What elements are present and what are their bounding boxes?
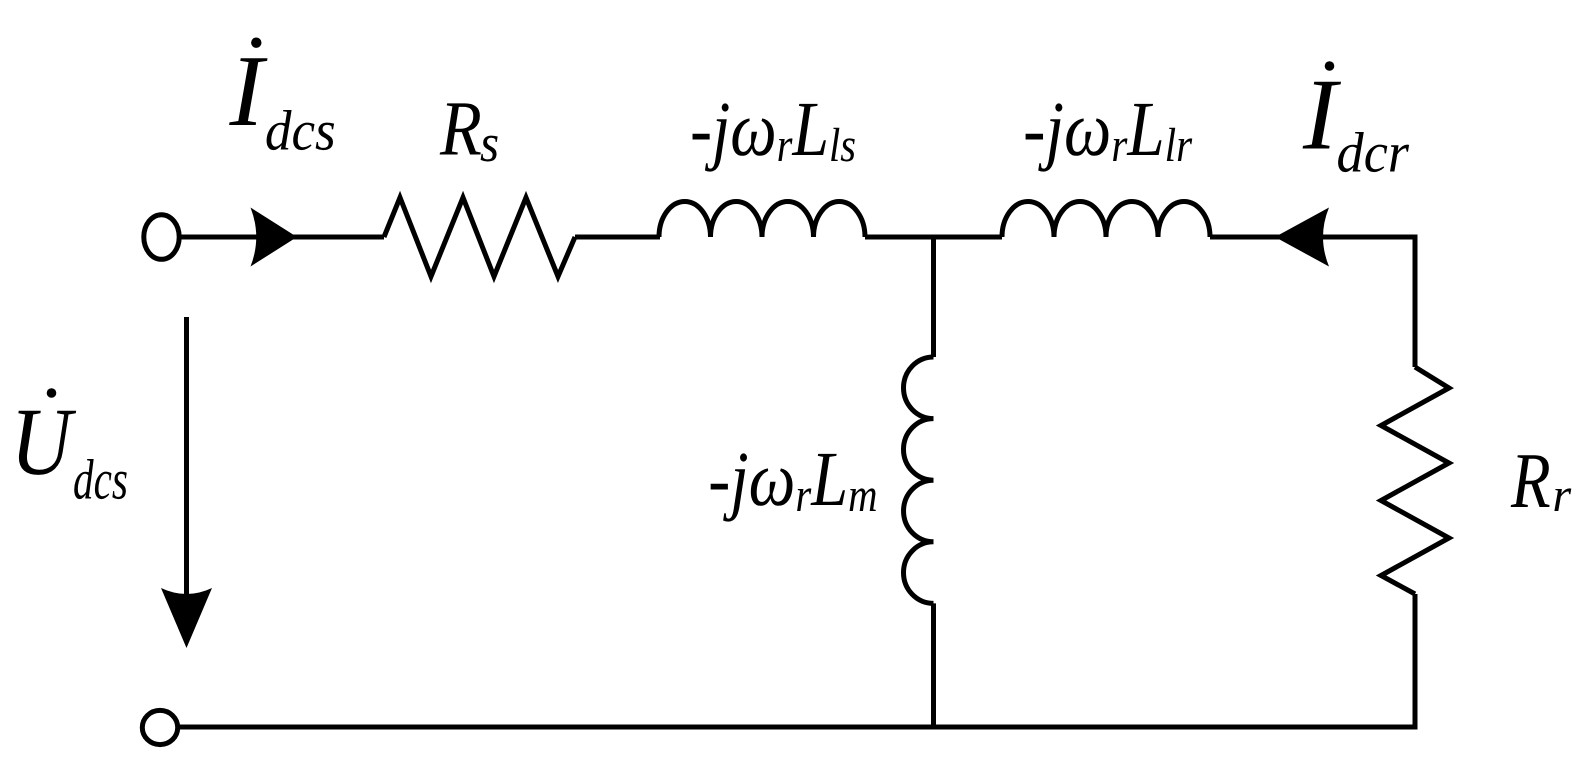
label Udcs : U — [18, 411, 76, 475]
arrow Idcr (left-pointing) — [1275, 208, 1329, 267]
label Idcr : dot — [1325, 61, 1335, 71]
wire bottom rail — [178, 725, 1415, 730]
inductor Llr — [1002, 202, 1210, 238]
wire between Lls and Llr — [865, 235, 1002, 240]
inductor Lm (vertical, bumps to left) — [903, 357, 933, 603]
wire center vertical lower — [931, 603, 936, 727]
label -jwrLls — [693, 103, 855, 171]
label Udcs : subscript dcs — [74, 459, 126, 499]
voltage arrow line Udcs — [184, 317, 189, 640]
wire right vertical upper — [1413, 235, 1418, 368]
arrow Idcs (right-pointing) — [251, 208, 298, 267]
label Idcr : subscript dcr — [1338, 132, 1409, 172]
label Udcs : dot — [47, 388, 57, 398]
label Rr : subscript r — [1554, 488, 1571, 511]
terminal circle bottom-left — [142, 710, 177, 744]
terminal circle top-left — [144, 215, 179, 260]
label Rs : R — [440, 103, 481, 154]
wire top rail right — [1210, 235, 1415, 240]
inductor Lls — [659, 202, 865, 238]
label -jwrLlr — [1026, 103, 1193, 171]
label -jwrLm — [711, 453, 876, 521]
label Idcs : subscript dcs — [267, 110, 335, 150]
voltage arrowhead (down) — [161, 588, 212, 648]
label Idcs : dot — [251, 38, 261, 48]
label Idcs : I — [229, 58, 267, 125]
label Rr : R — [1511, 455, 1550, 507]
resistor Rr — [1381, 367, 1449, 594]
wire center vertical upper — [931, 237, 936, 357]
wire top rail left — [181, 235, 384, 240]
resistor Rs — [384, 198, 575, 277]
label Idcr : I — [1303, 82, 1341, 149]
label Rs : subscript s — [481, 136, 498, 162]
wire right vertical lower — [1413, 594, 1418, 730]
wire between Rs and Lls — [575, 235, 660, 240]
